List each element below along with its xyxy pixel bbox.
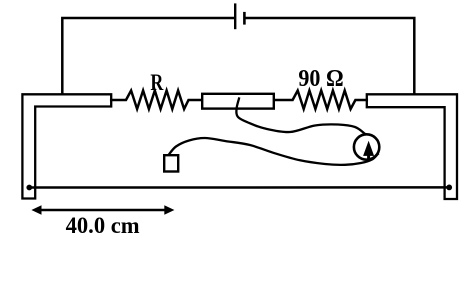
wire: galvanometer lead from resistance box tap (236, 99, 364, 134)
battery cell B1 short plate (243, 13, 246, 23)
wire: top-left battery loop (62, 18, 234, 94)
node dot right end of slide wire (446, 185, 452, 191)
svg-text:40.0 cm: 40.0 cm (66, 213, 140, 239)
dimension arrow 40.0 cm (double headed) (36, 209, 168, 212)
left copper strip (L-shaped) (22, 94, 111, 198)
right copper strip (L-shaped) (367, 94, 457, 199)
galvanometer needle (filled up arrow) (363, 141, 374, 160)
bridge slide wire (29, 186, 449, 189)
wire: top-right battery loop (245, 18, 414, 94)
svg-text:90 Ω: 90 Ω (298, 65, 343, 92)
resistor R (111, 91, 202, 110)
node dot left end of slide wire (26, 185, 32, 191)
svg-text:R: R (150, 71, 164, 96)
resistor 90 ohm (274, 91, 367, 110)
jockey (sliding contact square) (164, 155, 178, 171)
battery cell B1 long plate (234, 5, 236, 28)
resistance box (middle rectangle) (202, 94, 274, 109)
galvanometer G circle (354, 134, 379, 159)
wire: galvanometer lead from jockey (169, 138, 378, 165)
